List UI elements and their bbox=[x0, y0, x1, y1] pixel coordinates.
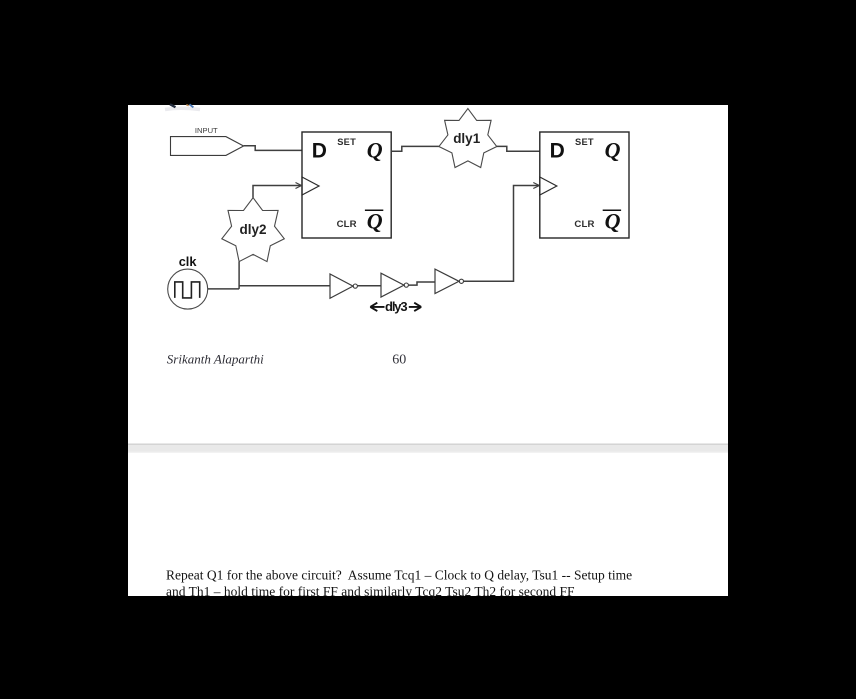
wire dly2 to U1 clock bbox=[253, 183, 302, 198]
svg-text:60: 60 bbox=[392, 352, 406, 367]
delay element dly2 bbox=[222, 198, 284, 262]
wire Q1 to dly1 bbox=[391, 146, 439, 151]
slide 2 page bbox=[128, 453, 728, 596]
wire clk to node bbox=[208, 288, 239, 290]
inverter U4 bbox=[381, 273, 408, 297]
U2 clock triangle bbox=[540, 177, 557, 195]
inverter U3 bbox=[330, 274, 357, 298]
wire dly2 to clk node bbox=[238, 262, 240, 289]
INPUT tag bbox=[171, 126, 244, 155]
clock source clk bbox=[168, 254, 208, 309]
svg-text:Q: Q bbox=[367, 137, 383, 162]
wire U3 to U4 bbox=[358, 285, 382, 287]
flip-flop U2 bbox=[540, 132, 629, 238]
svg-text:Repeat Q1 for the above circui: Repeat Q1 for the above circuit? Assume … bbox=[166, 567, 632, 582]
delay element dly1 bbox=[439, 109, 497, 168]
svg-text:CLR: CLR bbox=[337, 219, 357, 230]
svg-text:Q: Q bbox=[605, 208, 621, 233]
svg-text:Srikanth Alaparthi: Srikanth Alaparthi bbox=[167, 351, 264, 366]
flip-flop U1 bbox=[302, 132, 391, 238]
svg-text:clk: clk bbox=[179, 254, 198, 269]
wire dly1 to D2 bbox=[497, 146, 540, 151]
wire INPUT to D1 bbox=[244, 146, 302, 151]
stray cut-off marks top-left bbox=[165, 104, 200, 109]
svg-text:D: D bbox=[550, 139, 565, 162]
inverter U5 bbox=[435, 269, 464, 293]
svg-text:SET: SET bbox=[337, 137, 356, 147]
svg-text:Q: Q bbox=[367, 208, 383, 233]
svg-text:and Th1 – hold time for first: and Th1 – hold time for first FF and sim… bbox=[166, 584, 575, 599]
U1 clock triangle bbox=[302, 177, 319, 195]
svg-text:SET: SET bbox=[575, 137, 594, 147]
wire U4 to U5 bbox=[409, 282, 436, 285]
wire node to inverter U3 bbox=[239, 285, 330, 287]
slide 1 page bbox=[128, 105, 728, 444]
svg-text:D: D bbox=[312, 139, 327, 162]
svg-text:INPUT: INPUT bbox=[195, 126, 218, 135]
svg-text:Q: Q bbox=[605, 137, 621, 162]
label dly3 bbox=[370, 299, 421, 314]
gap between slides bbox=[128, 444, 728, 454]
svg-text:dly1: dly1 bbox=[453, 131, 481, 146]
svg-text:CLR: CLR bbox=[574, 219, 594, 230]
wire U5 to U2 clock bbox=[464, 183, 540, 282]
svg-text:dly2: dly2 bbox=[239, 222, 266, 237]
svg-text:dly3: dly3 bbox=[385, 299, 408, 314]
